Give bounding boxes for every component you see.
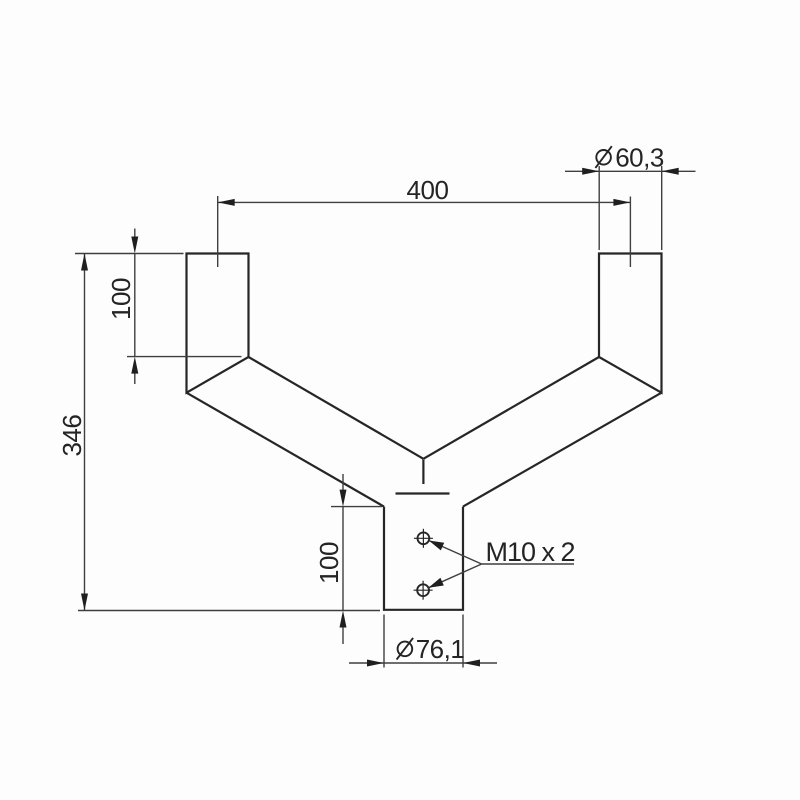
M10 x 2 text	[486, 537, 575, 567]
dimension dia 76,1 extension line left	[383, 615, 385, 668]
dimension dia 60,3 extension line left	[598, 166, 600, 250]
right tube outline	[599, 254, 662, 393]
dimension 346 top extension line	[75, 253, 184, 255]
dimension 346 bottom extension line	[78, 610, 380, 612]
svg-text:60,3: 60,3	[615, 142, 664, 172]
hole H2 with center mark	[414, 581, 433, 600]
left tube outline	[187, 254, 249, 393]
dimension 100 lower line with outside arrows	[340, 474, 347, 644]
svg-text:346: 346	[57, 415, 87, 457]
valley notch tick	[422, 460, 424, 485]
dimension 100 upper text (rotated)	[106, 278, 136, 320]
hole H1 with center mark	[414, 529, 433, 548]
right outer fork edge	[463, 393, 662, 507]
dimension dia 60,3 line with arrows	[565, 168, 696, 175]
dimension dia 76,1 line with arrows	[349, 660, 497, 667]
dimension 346 text (rotated)	[57, 415, 87, 457]
M10 leader to hole H2	[428, 564, 481, 588]
dimension 100 lower text (rotated)	[314, 542, 344, 584]
svg-text:100: 100	[106, 278, 136, 320]
svg-text:76,1: 76,1	[416, 634, 465, 664]
bottom stem outline	[384, 507, 463, 610]
dimension 100 upper bottom extension line	[127, 356, 242, 358]
dimension 100 upper line with outside arrows	[131, 229, 138, 385]
dimension dia 76,1 diameter symbol	[397, 638, 414, 660]
dimension dia 60,3 extension line right	[661, 166, 663, 250]
dimension dia 76,1 text	[416, 634, 465, 664]
dimension 400 extension line left	[217, 196, 219, 267]
svg-text:400: 400	[407, 175, 449, 205]
dimension 346 line with arrows	[81, 254, 88, 611]
saddle line	[396, 492, 450, 494]
M10 leader shoulder line	[482, 563, 574, 565]
M10 leader to hole H1	[429, 541, 482, 565]
dimension 400 line with arrows	[218, 199, 631, 206]
left inner fork edge	[249, 357, 424, 459]
dimension dia 60,3 text	[615, 142, 664, 172]
dimension 100 lower top extension line	[331, 506, 382, 508]
svg-text:M10 x 2: M10 x 2	[486, 537, 575, 567]
left outer fork edge	[187, 393, 385, 507]
right inner fork edge	[423, 357, 599, 459]
dimension dia 76,1 extension line right	[462, 615, 464, 668]
dimension dia 60,3 diameter symbol	[595, 146, 611, 168]
dimension 400 extension line right	[629, 197, 631, 268]
dimension 400 text	[407, 175, 449, 205]
svg-text:100: 100	[314, 542, 344, 584]
